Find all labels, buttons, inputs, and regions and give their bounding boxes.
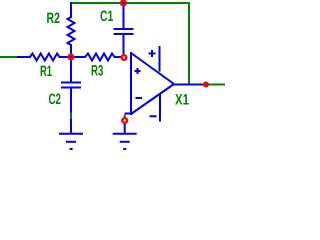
resistor R2 [68, 2, 75, 57]
wire: output net to right edge [209, 84, 226, 86]
wire: green stub to ground ring [124, 115, 126, 119]
ground (under op-amp - input) [113, 123, 137, 150]
ground (under C2) [59, 119, 83, 149]
svg-text:R3: R3 [91, 63, 103, 80]
op-amp - input marker [136, 97, 143, 99]
svg-text:X1: X1 [175, 92, 189, 109]
capacitor C1 [114, 1, 134, 56]
node: C1 top on rail [121, 1, 126, 6]
capacitor C2 [61, 57, 81, 113]
wire: - input to ground [125, 113, 131, 115]
node: output port dot [203, 82, 209, 88]
wire: C2 to ground (green stub) [70, 113, 72, 120]
resistor R1 [17, 54, 71, 61]
op-amp V+ marker [149, 50, 156, 57]
node: C1 bottom / R3 / op-amp + input [122, 55, 127, 60]
op-amp V- marker [150, 115, 157, 117]
op-amp + input marker [135, 68, 141, 74]
wire: top feedback rail [72, 3, 189, 84]
node: - input ground ring [122, 118, 127, 123]
wire: op-amp output (blue) [174, 84, 203, 86]
svg-text:R2: R2 [47, 10, 61, 27]
wire: input net (left) [0, 56, 18, 58]
op-amp V+ pin [159, 46, 161, 72]
resistor R3 [71, 54, 122, 61]
svg-text:R1: R1 [40, 63, 52, 80]
svg-text:C2: C2 [49, 91, 62, 108]
svg-text:C1: C1 [100, 8, 113, 25]
node junction: R1/R2/R3/C2 [69, 55, 74, 60]
op-amp X1 triangle [131, 52, 174, 115]
op-amp V- pin [159, 94, 161, 122]
